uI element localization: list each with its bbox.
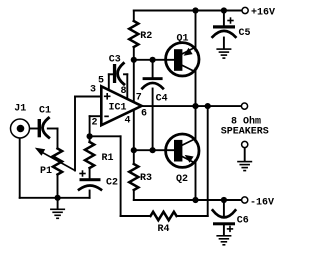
capacitor C6: [213, 210, 236, 217]
wire speaker ground stub: [244, 148, 246, 161]
svg-text:C6: C6: [237, 216, 249, 227]
svg-text:C1: C1: [39, 106, 51, 117]
svg-text:R1: R1: [102, 153, 114, 164]
capacitor C1: [38, 119, 41, 137]
minus sign inside IC1: [104, 116, 109, 118]
svg-text:R3: R3: [140, 173, 152, 184]
wire R3 bottom lead: [133, 190, 135, 200]
terminal -16V: [242, 197, 248, 203]
node dot output row riser: [205, 103, 211, 109]
ground below C6: [216, 235, 231, 246]
wire J1 to C1: [30, 128, 38, 130]
svg-text:+16V: +16V: [251, 8, 275, 19]
plus sign C6: [227, 226, 233, 232]
wire IC1 pin 2 vertical: [89, 116, 91, 136]
ground below speaker terminal: [237, 161, 252, 172]
node dot rail1 Q1: [192, 7, 198, 13]
node dot output row Q: [192, 103, 198, 109]
wire Q1 emitter to output node: [195, 69, 197, 107]
svg-text:6: 6: [141, 109, 147, 120]
svg-text:8 Ohm: 8 Ohm: [231, 115, 261, 127]
terminal speaker return: [242, 141, 248, 147]
potentiometer P1: [53, 149, 62, 175]
wire IC1 pin 3 horizontal: [75, 96, 101, 98]
capacitor C2: [80, 178, 101, 181]
svg-text:8: 8: [121, 86, 127, 97]
wire R4 row left: [121, 215, 151, 217]
resistor R2: [129, 21, 138, 47]
svg-text:C2: C2: [106, 178, 118, 189]
wire rail corner to R2 top: [133, 11, 135, 22]
wire IC1 pin 5 vertical: [108, 74, 110, 90]
node dot Q1 base row R2: [131, 57, 137, 63]
wire C4 top lead: [152, 60, 154, 78]
svg-text:R4: R4: [158, 224, 170, 235]
wire R3 top lead: [133, 150, 135, 164]
svg-text:Q2: Q2: [176, 174, 188, 185]
wire feedback riser from output row to R4: [207, 106, 209, 216]
node dot rail2 C6: [221, 197, 227, 203]
node dot Q1 base row C4: [150, 57, 156, 63]
node dot Q2 base row C4: [150, 147, 156, 153]
node dot rail2 Q2: [192, 197, 198, 203]
transistor Q2: [166, 134, 199, 167]
wire C6 bottom lead: [223, 226, 225, 236]
wire J1 sleeve down: [19, 139, 21, 198]
svg-text:P1: P1: [40, 166, 52, 177]
wire IC1 pin 5 horizontal to C3: [109, 73, 113, 75]
wire feedback horizontal from pin2 node: [90, 135, 121, 137]
wire IC1 pin 8 vertical: [126, 74, 128, 98]
wire IC1 pin 2 horizontal: [90, 115, 102, 117]
wire P1 wiper diagonal: [43, 153, 75, 171]
svg-text:J1: J1: [14, 103, 26, 114]
wire top +16V rail: [134, 10, 242, 12]
svg-text:SPEAKERS: SPEAKERS: [221, 127, 269, 138]
wire ground stub below P1 node: [57, 198, 59, 209]
svg-text:4: 4: [125, 116, 131, 127]
wire C5 top lead: [223, 11, 225, 26]
capacitor C3: [113, 64, 116, 83]
wire IC1 pin 7: [133, 60, 135, 102]
plus sign inside IC1: [104, 93, 111, 100]
ground below P1 node: [50, 209, 65, 220]
wire C6 top lead: [223, 200, 225, 217]
svg-text:Q1: Q1: [177, 34, 189, 45]
svg-text:7: 7: [136, 93, 142, 104]
wire corner down to P1 top: [57, 129, 59, 149]
wire R1 to C2: [89, 168, 91, 178]
capacitor C5: [213, 25, 235, 28]
svg-text:2: 2: [92, 118, 98, 129]
op-amp IC1: [101, 86, 141, 125]
node dot pin2 R1: [87, 133, 93, 139]
connector J1: [11, 119, 30, 138]
svg-text:IC1: IC1: [109, 102, 127, 113]
wire P1 bottom to ground row: [57, 175, 59, 198]
wire R1 top lead: [89, 136, 91, 142]
wire IC1 pin 4: [133, 110, 135, 151]
wire feedback vertical: [120, 136, 122, 216]
wire IC1 pin 3 vertical to P1 wiper: [74, 97, 76, 171]
svg-text:5: 5: [98, 76, 104, 87]
svg-text:C3: C3: [109, 54, 121, 65]
svg-text:C4: C4: [156, 93, 168, 104]
svg-text:R2: R2: [140, 31, 152, 42]
ground below C5: [216, 48, 231, 59]
wire C5 bottom lead: [223, 38, 225, 49]
capacitor C4: [143, 77, 163, 80]
wire Q2 emitter to output node: [195, 106, 197, 141]
wire IC1 pin 8 horizontal: [124, 73, 127, 75]
node dot rail1 C5: [221, 7, 227, 13]
resistor R4: [151, 212, 177, 220]
wire C2 bottom lead: [89, 191, 91, 198]
transistor Q1: [166, 43, 199, 76]
wire bottom -16V rail: [134, 199, 242, 201]
terminal +16V: [242, 7, 248, 13]
resistor R3: [129, 164, 138, 190]
wire Q1 collector to +16V rail: [195, 11, 197, 51]
resistor R1: [85, 142, 94, 168]
wire output row pin6 to speaker terminal: [142, 105, 242, 107]
potentiometer P1 wiper arrow: [35, 148, 45, 156]
svg-text:3: 3: [90, 84, 96, 95]
wire Q1 base row: [134, 59, 175, 61]
plus sign C5: [227, 17, 233, 23]
wire Q2 collector to -16V rail: [195, 160, 197, 200]
terminal output: [241, 103, 247, 109]
node dot Q2 base row R3: [131, 147, 137, 153]
svg-text:-16V: -16V: [250, 198, 274, 209]
plus sign C2: [79, 170, 85, 176]
svg-text:C5: C5: [239, 28, 251, 39]
wire C1 to P1 corner: [48, 128, 58, 130]
wire Q2 base row: [134, 149, 175, 151]
wire C4 bottom lead crossing output line: [152, 89, 154, 151]
wire R4 row right: [177, 215, 208, 217]
wire R2 bottom to Q1 base node: [133, 47, 135, 60]
node dot ground row P1: [55, 195, 61, 201]
wire ground row: [20, 197, 90, 199]
